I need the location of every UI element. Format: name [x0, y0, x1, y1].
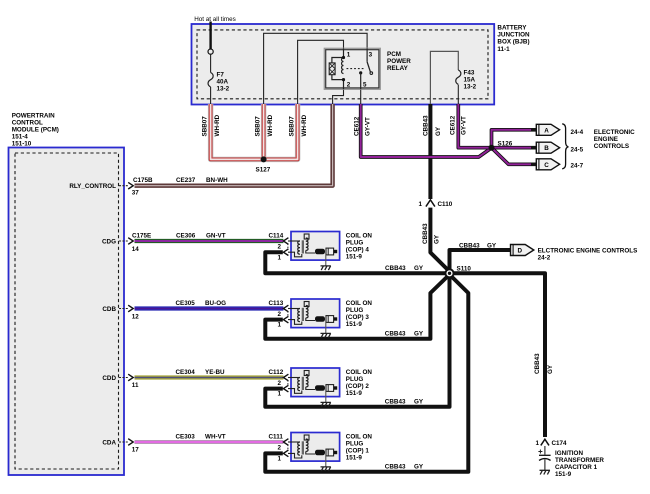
svg-text:S126: S126 [498, 140, 513, 147]
wire SBB07 WH-RD relay pin1 leg to S127 [264, 104, 298, 159]
svg-text:1: 1 [278, 391, 282, 398]
ignition coil transformer COP1 [298, 435, 315, 455]
svg-text:WH-RD: WH-RD [267, 114, 274, 136]
svg-text:C174: C174 [552, 440, 568, 447]
connector A pentagon [536, 124, 559, 135]
svg-text:(COP) 4: (COP) 4 [346, 246, 370, 253]
wire CBB43 GY S110 to D branch [450, 250, 512, 271]
svg-text:13-2: 13-2 [464, 84, 477, 91]
svg-text:C175E: C175E [132, 232, 151, 239]
svg-text:COIL ON: COIL ON [346, 300, 373, 307]
svg-text:(COP) 1: (COP) 1 [346, 447, 370, 454]
wire GY-VT S126 to connector C [492, 148, 537, 165]
battery junction box BJB [192, 24, 495, 105]
svg-text:CDG: CDG [102, 238, 116, 245]
wire CBB43 GY S110 to COP3 rail [265, 275, 449, 339]
svg-text:COIL ON: COIL ON [346, 433, 373, 440]
spark plug COP1 [315, 449, 337, 456]
svg-text:CONTROLS: CONTROLS [594, 143, 629, 150]
wire GY-VT S126 to connector A [492, 130, 537, 148]
svg-text:C114: C114 [269, 232, 284, 239]
svg-text:CE303: CE303 [176, 434, 196, 441]
svg-text:S127: S127 [256, 167, 271, 174]
svg-text:BATTERY: BATTERY [497, 24, 527, 31]
svg-text:CBB43: CBB43 [385, 265, 406, 272]
svg-text:CE305: CE305 [176, 300, 196, 307]
wire CE305 BU-OG PCM CDB to C113 [135, 306, 284, 310]
svg-text:PCM: PCM [387, 51, 401, 58]
wire CBB43 GY from C110 down to S110 [430, 208, 449, 272]
svg-text:14: 14 [132, 246, 140, 253]
svg-text:151-4: 151-4 [12, 134, 29, 141]
svg-text:24-7: 24-7 [571, 162, 584, 169]
svg-text:ENGINE: ENGINE [594, 136, 618, 143]
svg-text:C113: C113 [269, 300, 284, 307]
svg-text:12: 12 [132, 313, 140, 320]
svg-text:ELECTRONIC: ELECTRONIC [594, 129, 635, 136]
svg-text:151-9: 151-9 [346, 390, 363, 397]
svg-text:2: 2 [278, 243, 282, 250]
ground COP1 [321, 456, 331, 471]
svg-text:F43: F43 [464, 70, 475, 77]
svg-text:COIL ON: COIL ON [346, 232, 373, 239]
svg-text:2: 2 [278, 380, 282, 387]
splice S126 [489, 145, 495, 151]
coil on plug COP1 box [288, 433, 340, 462]
spark plug COP3 [315, 316, 337, 323]
svg-text:MODULE (PCM): MODULE (PCM) [12, 127, 59, 134]
svg-text:151-10: 151-10 [12, 141, 32, 148]
svg-text:B: B [544, 145, 549, 152]
ground COP4 [321, 255, 331, 270]
svg-text:D: D [518, 248, 523, 255]
svg-text:CDA: CDA [102, 439, 116, 446]
svg-text:CE304: CE304 [176, 369, 196, 376]
svg-text:WH-RD: WH-RD [214, 114, 221, 136]
svg-text:3: 3 [369, 52, 373, 59]
svg-text:24-5: 24-5 [571, 147, 584, 154]
svg-text:(COP) 2: (COP) 2 [346, 383, 370, 390]
svg-text:CE612: CE612 [450, 115, 457, 135]
PCM power relay box [324, 48, 380, 89]
wire relay pin1 to SBB07 leg [298, 40, 344, 104]
svg-text:PLUG: PLUG [346, 376, 364, 383]
svg-text:151-9: 151-9 [555, 471, 572, 478]
svg-text:2: 2 [347, 81, 351, 88]
svg-text:CBB43: CBB43 [422, 223, 429, 244]
wire CBB43 GY S110 right to ignition capacitor C174 [450, 273, 546, 437]
wire SBB07 WH-RD relay pin3 leg to S127 [261, 104, 266, 159]
svg-text:GN-VT: GN-VT [206, 232, 226, 239]
coil on plug COP2 box [288, 368, 340, 397]
svg-text:BOX (BJB): BOX (BJB) [497, 39, 529, 46]
svg-text:(COP) 3: (COP) 3 [346, 314, 370, 321]
svg-text:GY: GY [434, 234, 441, 244]
wire CE304 YE-BU PCM CDD to C112 [135, 375, 284, 379]
powertrain control module PCM box [9, 148, 125, 476]
relay pin 1 [342, 48, 345, 59]
svg-text:40A: 40A [217, 79, 229, 86]
svg-text:SBB07: SBB07 [202, 116, 209, 137]
svg-text:GY: GY [414, 399, 424, 406]
svg-text:1: 1 [278, 455, 282, 462]
svg-text:F7: F7 [217, 72, 225, 79]
svg-text:15A: 15A [464, 77, 476, 84]
connector C174 inline [541, 439, 549, 454]
svg-text:Hot at all times: Hot at all times [194, 16, 236, 23]
svg-text:POWERTRAIN: POWERTRAIN [12, 113, 55, 120]
coil on plug COP3 box [288, 299, 340, 328]
svg-text:POWER: POWER [387, 58, 411, 65]
svg-text:PLUG: PLUG [346, 239, 364, 246]
connector C113 pin arrows [283, 305, 288, 323]
wire CE306 GN-VT PCM CDG to C114 [135, 239, 284, 243]
svg-text:13-2: 13-2 [217, 86, 230, 93]
svg-text:CDD: CDD [102, 375, 116, 382]
ignition coil transformer COP2 [298, 371, 315, 391]
svg-text:24-4: 24-4 [571, 129, 584, 136]
svg-text:GY: GY [435, 126, 442, 136]
svg-text:JUNCTION: JUNCTION [497, 32, 530, 39]
svg-text:5: 5 [363, 81, 367, 88]
connector C110 inline [424, 200, 436, 208]
svg-text:RELAY: RELAY [387, 65, 409, 72]
svg-text:WH-VT: WH-VT [205, 434, 226, 441]
ground capacitor [540, 470, 551, 474]
svg-text:BU-OG: BU-OG [205, 300, 226, 307]
PCM pin 12 arrow [119, 305, 133, 312]
svg-text:1: 1 [535, 440, 539, 447]
PCM pin 11 arrow [119, 374, 133, 381]
splice S110 [445, 269, 453, 277]
wire relay pin3 to SBB07 leg [264, 33, 368, 104]
svg-text:BN-WH: BN-WH [206, 177, 228, 184]
connector C pentagon [536, 159, 559, 170]
connector C112 pin arrows [283, 374, 288, 392]
spark plug COP4 [315, 248, 337, 255]
relay coil between pins 1 and 2 [329, 58, 343, 80]
svg-text:CAPACITOR 1: CAPACITOR 1 [555, 464, 598, 471]
svg-text:11-1: 11-1 [497, 46, 510, 53]
svg-text:A: A [544, 127, 549, 134]
svg-text:CE306: CE306 [176, 232, 196, 239]
svg-text:151-9: 151-9 [346, 454, 363, 461]
svg-text:PLUG: PLUG [346, 440, 364, 447]
wire relay pin2 to BN-WH exit [333, 89, 344, 104]
svg-text:C175B: C175B [133, 177, 153, 184]
svg-text:C112: C112 [269, 369, 284, 376]
connector B pentagon [536, 142, 559, 153]
wire SBB07 WH-RD fuse F7 to S127 [211, 104, 264, 159]
svg-text:C111: C111 [269, 434, 284, 441]
ignition coil transformer COP3 [298, 302, 315, 322]
svg-text:24-2: 24-2 [538, 255, 551, 262]
svg-text:CBB43: CBB43 [534, 353, 541, 374]
svg-text:GY: GY [547, 364, 554, 374]
wire CBB43 leg inside box [430, 51, 458, 104]
svg-text:GY-VT: GY-VT [461, 116, 468, 135]
svg-text:TRANSFORMER: TRANSFORMER [555, 457, 604, 464]
wire CBB43 GY S110 to COP2 rail [265, 275, 449, 407]
ignition transformer capacitor 1 [538, 450, 550, 471]
wire CBB43 GY COP4 rail to S110 [265, 252, 449, 273]
svg-text:CBB43: CBB43 [385, 331, 406, 338]
svg-text:CBB43: CBB43 [385, 464, 406, 471]
relay pin 5 contact [359, 71, 362, 89]
svg-text:2: 2 [278, 311, 282, 318]
svg-text:CONTROL: CONTROL [12, 120, 43, 127]
svg-text:CBB43: CBB43 [385, 399, 406, 406]
ground COP3 [321, 322, 331, 337]
wire CE612 GY-VT fuse F43 to S126 and connector B [458, 104, 537, 148]
svg-text:SBB07: SBB07 [255, 116, 262, 137]
svg-text:PLUG: PLUG [346, 307, 364, 314]
svg-text:GY: GY [414, 464, 424, 471]
svg-text:ELCTRONIC ENGINE CONTROLS: ELCTRONIC ENGINE CONTROLS [538, 247, 638, 254]
relay switch pin 3 [367, 48, 373, 74]
hot-at-all-times feed wire [208, 22, 213, 73]
svg-text:151-9: 151-9 [346, 253, 363, 260]
relay pin 2 [342, 78, 345, 89]
svg-text:GY: GY [414, 331, 424, 338]
spark plug COP2 [315, 385, 337, 392]
connector C111 pin arrows [283, 439, 288, 457]
svg-text:37: 37 [132, 190, 140, 197]
PCM pin 14 connector C175E arrow [119, 238, 133, 245]
svg-text:CE612: CE612 [354, 116, 361, 136]
brace for connectors A B C [562, 124, 568, 169]
ignition coil transformer COP4 [298, 234, 315, 254]
svg-text:1: 1 [347, 52, 351, 59]
svg-text:151-9: 151-9 [346, 321, 363, 328]
svg-text:C110: C110 [438, 201, 453, 208]
wire CE237 BN-WH relay pin2 to PCM RLY_CONTROL [135, 104, 333, 186]
svg-text:COIL ON: COIL ON [346, 369, 373, 376]
svg-text:17: 17 [132, 446, 140, 453]
svg-text:IGNITION: IGNITION [555, 450, 583, 457]
svg-text:WH-RD: WH-RD [301, 114, 308, 136]
splice S127 [261, 156, 267, 162]
svg-text:1: 1 [278, 322, 282, 329]
svg-text:GY: GY [487, 242, 497, 249]
PCM pin 17 arrow [119, 439, 133, 446]
PCM pin 37 connector C175B arrow [119, 182, 133, 189]
wire CE303 WH-VT PCM CDA to C111 [135, 440, 284, 444]
svg-text:YE-BU: YE-BU [205, 369, 225, 376]
wire CBB43 GY from BJB down to C110 [428, 104, 432, 199]
svg-text:1: 1 [278, 254, 282, 261]
svg-text:2: 2 [278, 444, 282, 451]
svg-text:11: 11 [132, 382, 139, 389]
connector C114 pin arrows [283, 238, 288, 256]
svg-text:CE237: CE237 [176, 177, 196, 184]
ground COP2 [321, 391, 331, 406]
coil on plug COP4 box [288, 232, 340, 261]
svg-text:CBB43: CBB43 [459, 242, 480, 249]
wire CE612 GY-VT relay pin5 to S126 [361, 104, 492, 157]
relay dashed actuator link [347, 68, 365, 70]
svg-text:GY: GY [414, 265, 424, 272]
fuse F43 [456, 70, 461, 105]
fuse F7 [208, 73, 213, 105]
svg-text:1: 1 [418, 201, 422, 208]
svg-text:RLY_CONTROL: RLY_CONTROL [69, 183, 116, 190]
svg-text:S110: S110 [457, 265, 472, 272]
svg-text:CDB: CDB [102, 306, 116, 313]
wire relay pin5 to CE612 exit [360, 89, 362, 104]
wire CBB43 GY S110 to COP1 rail [265, 275, 468, 472]
svg-text:CBB43: CBB43 [423, 115, 430, 136]
svg-text:GY-VT: GY-VT [365, 117, 372, 136]
connector D pentagon [511, 245, 534, 256]
svg-text:C: C [544, 162, 549, 169]
svg-text:SBB07: SBB07 [289, 116, 296, 137]
